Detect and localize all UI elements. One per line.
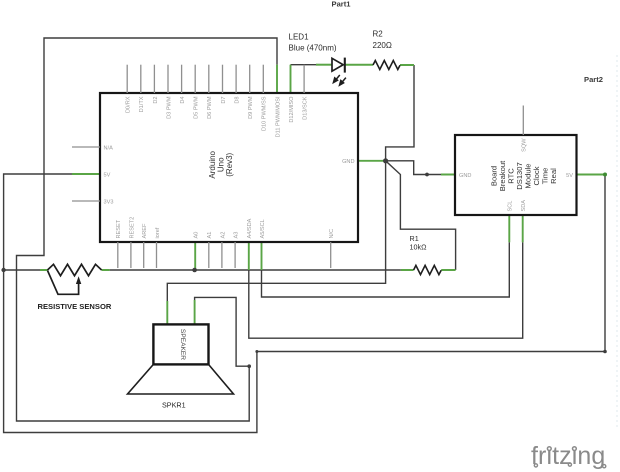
resistor R2: [373, 61, 400, 70]
svg-text:D1/TX: D1/TX: [139, 96, 145, 112]
bendpoint speaker wire: [247, 364, 251, 368]
svg-text:D5 PWM: D5 PWM: [194, 96, 200, 119]
svg-text:220Ω: 220Ω: [373, 41, 392, 50]
RTC U2 label: [489, 160, 558, 191]
resistive sensor wiper: [48, 271, 79, 295]
svg-text:RESISTIVE SENSOR: RESISTIVE SENSOR: [38, 302, 112, 311]
svg-text:A2: A2: [220, 232, 226, 239]
wire R2 right to GND junction: [386, 65, 414, 161]
wire A5/SCL to RTC SCL: [262, 242, 510, 297]
svg-text:A1: A1: [207, 232, 213, 239]
bendpoint 5V corner lower: [603, 350, 607, 354]
svg-text:Blue (470nm): Blue (470nm): [289, 44, 337, 53]
arduino left pin labels: [104, 145, 114, 205]
svg-text:SQW: SQW: [522, 138, 528, 152]
svg-text:D10 PWM/SS: D10 PWM/SS: [262, 96, 268, 131]
green legs speaker: [167, 300, 194, 324]
junction GND node: [383, 158, 388, 163]
svg-text:Part2: Part2: [584, 75, 603, 84]
wire net D11 to speaker right pin: [17, 38, 278, 421]
bendpoint RTC GND wire: [425, 173, 429, 177]
svg-text:(Rev3): (Rev3): [225, 152, 234, 176]
fritzing logo: [531, 441, 606, 470]
green leg RTC GND: [441, 174, 455, 176]
RTC pin labels: [459, 138, 573, 212]
arduino bottom pin labels: [116, 217, 335, 239]
RTC U2 box: [455, 135, 577, 215]
svg-text:GND: GND: [342, 159, 354, 165]
svg-text:D3 PWM: D3 PWM: [166, 96, 172, 119]
svg-text:D2: D2: [153, 97, 159, 104]
svg-text:LED1: LED1: [289, 32, 310, 41]
LED LED1 symbol: [332, 58, 343, 71]
resistive sensor element: [48, 264, 102, 275]
arduino U1 box: [100, 93, 358, 242]
green legs RTC SCL SDA: [509, 215, 522, 242]
wire 5V pin to sensor feed and RTC 5V: [4, 174, 605, 433]
green leg arduino GND (right): [358, 160, 386, 162]
svg-text:A3: A3: [234, 232, 240, 239]
wire GND junction to R1 right: [386, 161, 456, 270]
wire GND junction to RTC GND: [386, 161, 441, 175]
RTC SQW pin leg (unconnected): [522, 106, 524, 136]
svg-text:Real: Real: [549, 168, 558, 184]
LED1 emission arrows: [333, 75, 346, 85]
arduino U1 label: [208, 150, 234, 178]
junction 5V-sensor node: [1, 268, 5, 272]
svg-text:RESET2: RESET2: [129, 217, 135, 239]
sheet edge dashed guide: [616, 55, 618, 430]
wire A4/SDA to RTC SDA: [249, 242, 523, 338]
wire sensor right to A0 and R1 left: [110, 269, 401, 271]
green legs arduino A0 A4 A5: [195, 242, 261, 270]
svg-text:5V: 5V: [104, 172, 111, 178]
svg-text:D11 PWM/MOSI: D11 PWM/MOSI: [275, 96, 281, 137]
svg-text:N/C: N/C: [329, 229, 335, 239]
wire D12 to LED anode: [291, 64, 317, 66]
svg-text:R2: R2: [373, 30, 384, 39]
arduino top pin legs D0-D10,D13 (unconnected): [127, 65, 304, 93]
svg-text:D0/RX: D0/RX: [126, 96, 132, 113]
svg-text:A0: A0: [194, 232, 200, 239]
svg-text:D9 PWM: D9 PWM: [248, 96, 254, 119]
svg-text:D4: D4: [180, 97, 186, 104]
bendpoint RTC 5V corner: [603, 173, 607, 177]
svg-text:3V3: 3V3: [104, 199, 114, 205]
junction A0-sensor node: [192, 268, 197, 273]
svg-text:D8: D8: [235, 97, 241, 104]
speaker SPKR1 cone: [128, 364, 234, 394]
resistor R1: [414, 265, 442, 274]
arduino top pin labels: [126, 96, 309, 138]
svg-text:D7: D7: [221, 97, 227, 104]
svg-text:SPKR1: SPKR1: [162, 400, 186, 409]
arduino bottom pin legs (unconnected): [118, 242, 331, 268]
svg-text:D6 PWM: D6 PWM: [207, 96, 213, 119]
R1 value label: [410, 234, 428, 252]
wire GND junction to speaker left pin: [167, 161, 385, 301]
LED1 cathode bar: [344, 58, 346, 73]
svg-text:A4/SDA: A4/SDA: [247, 218, 253, 238]
green leg arduino 5V (left): [72, 173, 100, 175]
svg-text:AREF: AREF: [142, 223, 148, 239]
green legs sensor: [40, 269, 110, 271]
green leg LED cathode to R2 left: [345, 64, 373, 66]
svg-text:N/A: N/A: [104, 145, 114, 151]
svg-text:5V: 5V: [566, 173, 573, 179]
svg-text:10kΩ: 10kΩ: [410, 242, 428, 251]
svg-text:RESET: RESET: [116, 219, 122, 238]
svg-text:A5/SCL: A5/SCL: [260, 219, 266, 238]
green leg arduino D11: [276, 65, 278, 93]
svg-text:GND: GND: [459, 173, 471, 179]
wire 5V junction to sensor left: [4, 269, 40, 271]
green leg LED anode and wire row: [316, 64, 332, 66]
green leg RTC 5V: [577, 174, 606, 176]
green leg R2 right: [400, 64, 414, 66]
svg-text:D13/SCK: D13/SCK: [303, 96, 309, 120]
green leg arduino D12: [290, 65, 292, 93]
LED1 value label: [289, 32, 337, 52]
bendpoint 5V riser: [255, 350, 258, 353]
R2 value label: [373, 30, 392, 50]
svg-text:Part1: Part1: [332, 0, 352, 8]
svg-text:SDA: SDA: [521, 200, 527, 212]
arduino left pin legs N/A,3V3 (unconnected): [72, 147, 100, 201]
svg-text:D12/MISO: D12/MISO: [289, 96, 295, 123]
svg-text:SCL: SCL: [508, 201, 514, 212]
svg-text:ioref: ioref: [155, 227, 161, 238]
green legs R1: [401, 269, 456, 271]
svg-text:SPEAKER: SPEAKER: [179, 329, 186, 360]
speaker SPKR1 body: [153, 324, 208, 364]
